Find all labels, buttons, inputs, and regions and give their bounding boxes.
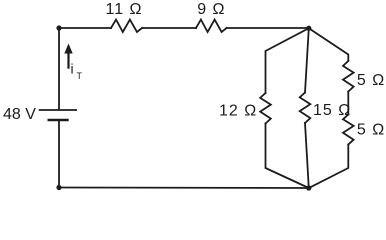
wire top left segment <box>59 27 111 29</box>
wire 15ohm branch bottom <box>305 123 309 188</box>
wire top middle segment <box>142 27 196 29</box>
svg-text:i: i <box>71 61 74 77</box>
wire 5ohm branch middle <box>347 92 349 115</box>
wire 15ohm branch top <box>305 28 309 92</box>
wire 5ohm branch bottom <box>309 145 349 189</box>
resistor R4 15 ohm <box>300 93 311 124</box>
resistor R5 5 ohm upper <box>343 61 354 92</box>
svg-text:T: T <box>77 71 83 81</box>
wire bottom <box>59 187 309 190</box>
wire left vertical lower <box>58 121 60 188</box>
node bottom right <box>306 185 311 190</box>
node top right <box>306 26 311 31</box>
battery V1 short plate <box>49 119 68 121</box>
svg-text:48 V: 48 V <box>3 106 36 123</box>
svg-text:5 Ω: 5 Ω <box>357 72 385 89</box>
svg-text:11 Ω: 11 Ω <box>106 1 143 18</box>
wire 5ohm branch top diagonal <box>309 28 349 61</box>
current arrow iT <box>64 44 72 69</box>
resistor R6 5 ohm lower <box>343 115 354 145</box>
svg-text:12 Ω: 12 Ω <box>219 102 257 119</box>
wire top right segment <box>227 27 309 29</box>
node bottom left <box>56 185 61 190</box>
battery V1 long plate <box>40 109 77 111</box>
resistor R1 11 ohm <box>111 20 142 32</box>
resistor R2 9 ohm <box>196 20 227 32</box>
resistor R3 12 ohm <box>260 93 271 124</box>
svg-text:5 Ω: 5 Ω <box>357 122 385 139</box>
svg-text:15 Ω: 15 Ω <box>313 102 351 119</box>
wire left vertical upper <box>58 28 60 109</box>
node top left <box>56 25 61 30</box>
wire 12ohm branch top diagonal <box>266 28 309 93</box>
wire 12ohm branch bottom <box>266 124 309 189</box>
svg-text:9 Ω: 9 Ω <box>197 1 225 18</box>
